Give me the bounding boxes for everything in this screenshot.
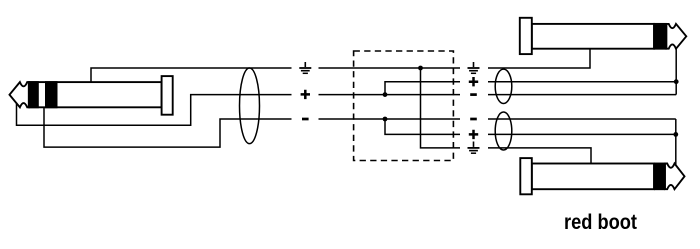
junction box (dashed) bbox=[354, 51, 454, 161]
top right TS plug: tip bbox=[666, 24, 686, 49]
plus symbol (right, top plug tip row) bbox=[469, 77, 478, 86]
wire: bottom plug tip row to plug bbox=[488, 133, 676, 135]
wire: left plug tip to plus row bbox=[17, 95, 292, 126]
wire: minus tap down to bottom plug tip row bbox=[385, 119, 460, 134]
junction dot: minus row tap bbox=[383, 117, 388, 122]
bottom right TS plug: tip bbox=[665, 164, 685, 190]
ground symbol (left, on ground row) bbox=[299, 62, 311, 73]
wire: ground row through junction box bbox=[319, 67, 461, 69]
ground symbol (right, bottom plug row) bbox=[468, 142, 480, 154]
left TRS plug: tip bbox=[10, 82, 29, 107]
minus symbol (right, row 3) bbox=[470, 93, 477, 96]
bottom right TS plug: insulator band bbox=[654, 163, 665, 191]
cable sheath ellipse (bottom right cable) bbox=[495, 112, 512, 150]
wire: vertical from top plug tip notch bbox=[675, 47, 677, 95]
wire: vertical to bottom plug tip notch bbox=[675, 119, 677, 165]
wire: row 4 to bottom plug vertical bbox=[488, 118, 676, 120]
cable sheath ellipse (top right cable) bbox=[495, 69, 512, 103]
left TRS plug: ring insulator band bbox=[45, 81, 58, 108]
top right TS plug: barrel bbox=[532, 24, 654, 49]
wire: top plug tip row to plug bbox=[488, 81, 676, 83]
wire: minus row into junction box bbox=[319, 118, 461, 120]
svg-text:red boot: red boot bbox=[564, 210, 637, 234]
junction dot: ground row tap bbox=[418, 66, 423, 71]
bottom right TS plug: barrel bbox=[532, 164, 654, 190]
junction dot: bottom plug tip row bbox=[673, 132, 678, 137]
wire: plus tap up to top plug tip row bbox=[385, 82, 460, 95]
cable sheath ellipse (left cable) bbox=[240, 68, 260, 144]
plus symbol (left, on plus row) bbox=[301, 90, 310, 99]
wire: row 3 to top plug vertical bbox=[488, 94, 676, 96]
wire: plus row into junction box bbox=[319, 94, 461, 96]
wire: bottom ground row to bottom plug sleeve bbox=[488, 148, 591, 164]
wire: ground row to top plug sleeve bbox=[488, 49, 590, 68]
minus symbol (right, row 4) bbox=[470, 118, 477, 121]
plus symbol (right, bottom plug tip row) bbox=[469, 130, 478, 139]
left TRS plug: collar bbox=[162, 76, 173, 115]
left TRS plug: sleeve barrel bbox=[29, 82, 162, 107]
wire: left plug ring to minus row bbox=[44, 108, 292, 148]
junction dot: top plug tip row bbox=[674, 79, 679, 84]
minus symbol (left, on minus row) bbox=[302, 118, 309, 121]
left TRS plug: tip insulator band bbox=[29, 81, 39, 108]
junction dot: plus row tap bbox=[383, 92, 388, 97]
bottom right TS plug: collar bbox=[520, 158, 532, 194]
wire: ground jumper down to bottom ground row bbox=[421, 68, 461, 148]
ground symbol (right, top plug row) bbox=[468, 62, 480, 73]
top right TS plug: insulator band bbox=[653, 23, 666, 50]
wire: left plug sleeve to ground row (node GND left) bbox=[91, 68, 292, 83]
top right TS plug: collar bbox=[520, 18, 532, 54]
